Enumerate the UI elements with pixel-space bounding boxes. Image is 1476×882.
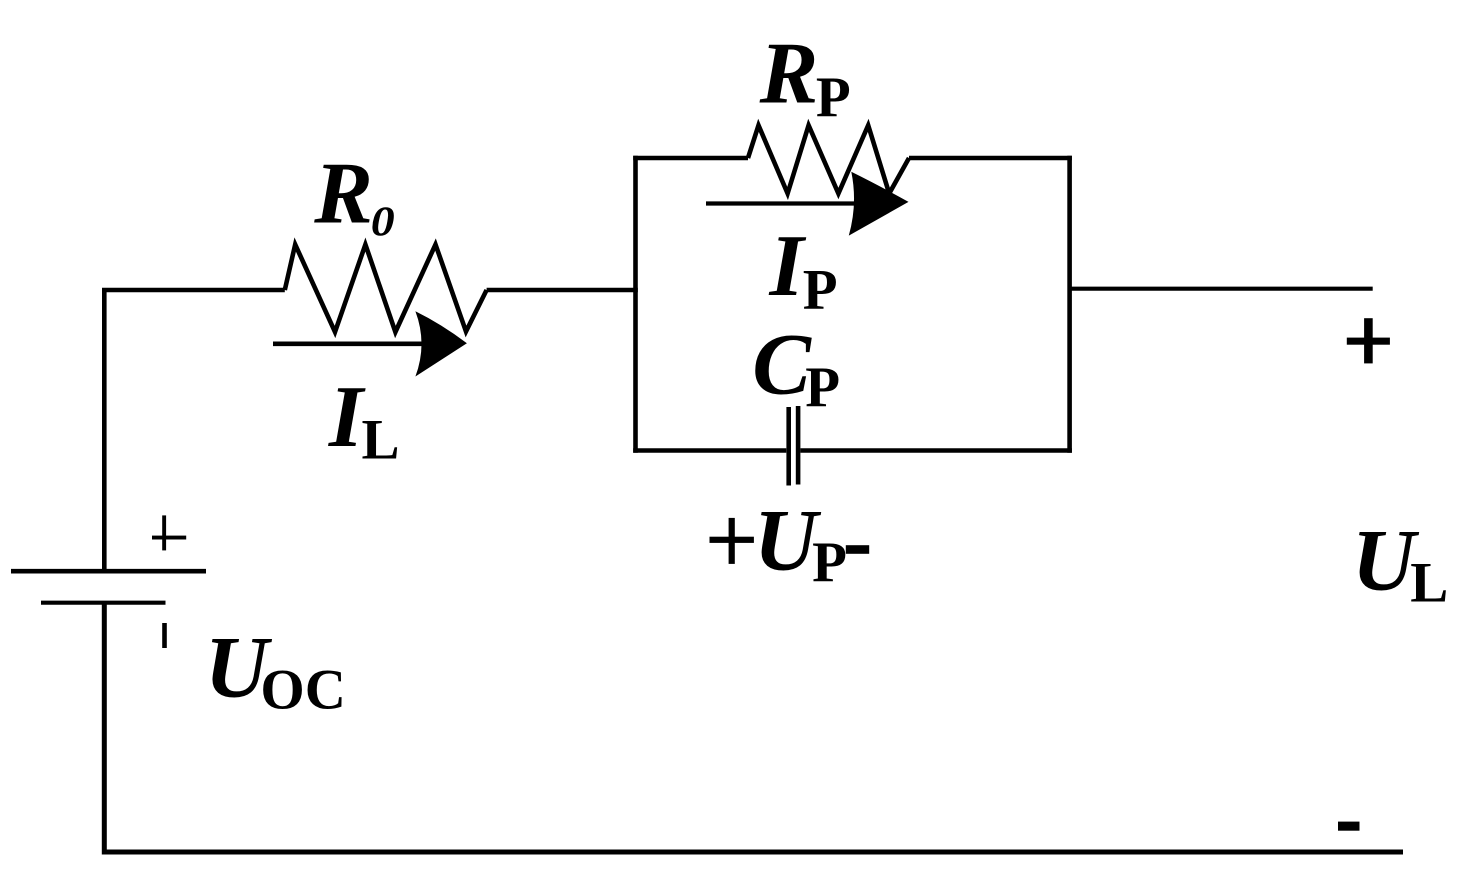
svg-text:OC: OC bbox=[260, 659, 346, 722]
svg-text:P: P bbox=[805, 356, 840, 419]
svg-text:0: 0 bbox=[371, 198, 395, 245]
svg-text:R: R bbox=[313, 145, 373, 242]
svg-text:L: L bbox=[362, 408, 400, 471]
svg-text:P: P bbox=[812, 531, 847, 594]
svg-text:I: I bbox=[769, 218, 807, 315]
svg-text:P: P bbox=[803, 258, 838, 321]
svg-text:R: R bbox=[759, 26, 819, 123]
svg-text:C: C bbox=[752, 317, 812, 414]
svg-text:P: P bbox=[816, 66, 851, 129]
svg-text:L: L bbox=[1410, 552, 1448, 615]
svg-text:I: I bbox=[328, 369, 366, 466]
